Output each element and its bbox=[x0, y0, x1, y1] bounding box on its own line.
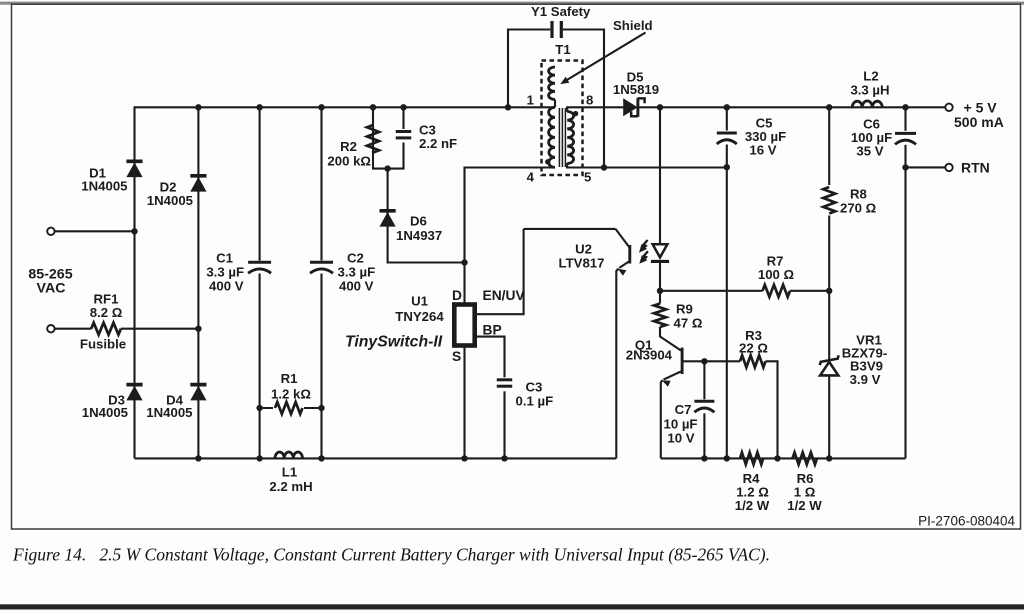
label U2 LTV817 bbox=[559, 242, 605, 271]
label R4 1.2ohm 1/2W bbox=[735, 471, 770, 513]
label D3 1N4005 bbox=[82, 393, 128, 421]
wire RF1 to D2/D4 node bbox=[121, 328, 198, 330]
svg-text:Y1 Safety: Y1 Safety bbox=[531, 4, 591, 19]
resistor R8 bbox=[821, 185, 838, 216]
label R7 100ohm bbox=[758, 254, 795, 283]
svg-text:2N3904: 2N3904 bbox=[626, 348, 673, 363]
label R2 200k bbox=[327, 139, 371, 169]
wire D6 branch bbox=[388, 169, 465, 263]
node: C5 top bbox=[724, 104, 730, 110]
svg-text:L2: L2 bbox=[863, 69, 878, 84]
svg-text:EN/UV: EN/UV bbox=[483, 288, 526, 303]
capacitor C6 bbox=[895, 131, 917, 145]
node: Y1 to secondary return bbox=[601, 164, 607, 170]
node: R1 right bbox=[318, 405, 324, 411]
label C1 3.3uF 400V bbox=[206, 251, 244, 294]
label 85-265 VAC bbox=[28, 267, 72, 297]
diode D2 bbox=[190, 176, 206, 192]
node: D6 to drain bbox=[461, 259, 467, 265]
capacitor C1 bbox=[248, 261, 271, 274]
svg-text:RTN: RTN bbox=[961, 160, 990, 176]
wire pin5 to C5 bbox=[566, 166, 727, 168]
wire R7 to R8 node bbox=[790, 290, 829, 292]
wire EN/UV bbox=[477, 229, 524, 314]
label RTN bbox=[961, 160, 990, 176]
capacitor Y1 safety bbox=[552, 21, 561, 38]
wire BP bbox=[477, 337, 505, 459]
zener VR1 bbox=[820, 355, 839, 375]
label VR1 BZX79-B3V9 3.9V bbox=[842, 333, 887, 388]
label Q1 2N3904 bbox=[626, 338, 673, 363]
svg-text:VAC: VAC bbox=[37, 280, 66, 296]
svg-text:1N4005: 1N4005 bbox=[146, 405, 192, 420]
wire top bus bbox=[198, 106, 555, 108]
resistor R7 bbox=[763, 285, 790, 297]
wire bottom bus (primary) bbox=[135, 457, 617, 459]
svg-text:D6: D6 bbox=[410, 214, 427, 229]
label Shield bbox=[613, 18, 653, 33]
node: C7 bottom bbox=[701, 455, 707, 461]
svg-text:400 V: 400 V bbox=[339, 279, 374, 294]
svg-text:100 Ω: 100 Ω bbox=[758, 267, 795, 282]
wire D1/D3 branch bbox=[135, 107, 199, 458]
AC input terminal (top) bbox=[47, 228, 54, 235]
svg-text:1: 1 bbox=[527, 93, 534, 108]
svg-text:Fusible: Fusible bbox=[80, 337, 126, 352]
wire secondary bottom rail bbox=[661, 457, 906, 459]
svg-text:2.2 nF: 2.2 nF bbox=[419, 136, 457, 151]
label L1 2.2mH bbox=[269, 465, 312, 495]
node: L2 right / C6 top bbox=[902, 104, 908, 110]
label TinySwitch-II bbox=[345, 334, 443, 351]
wire RTN rail bbox=[904, 107, 906, 458]
node: C1 top bbox=[256, 104, 262, 110]
svg-text:1N4005: 1N4005 bbox=[147, 193, 193, 208]
svg-text:TNY264: TNY264 bbox=[395, 309, 444, 324]
wire Y1 branch left bbox=[508, 30, 550, 108]
wire R7 row bbox=[660, 290, 763, 292]
node: R2 top bbox=[370, 104, 376, 110]
wire C3 branch bbox=[388, 107, 404, 168]
svg-text:35 V: 35 V bbox=[856, 144, 883, 159]
transformer T1 dashed box bbox=[542, 61, 583, 176]
wire R1 row bbox=[260, 407, 322, 409]
output terminal +5V bbox=[945, 104, 952, 111]
label U1 TNY264 bbox=[395, 294, 444, 325]
PI code bbox=[918, 514, 1015, 529]
wire pin4 to drain bbox=[465, 168, 556, 263]
label BP bbox=[483, 323, 502, 338]
svg-text:3.3 µF: 3.3 µF bbox=[338, 265, 376, 280]
svg-text:2.2 mH: 2.2 mH bbox=[269, 479, 312, 494]
label +5V 500mA bbox=[954, 100, 1004, 131]
label D6 1N4937 bbox=[396, 214, 442, 244]
label R9 47ohm bbox=[674, 302, 703, 331]
wire input-bottom to RF1 bbox=[55, 328, 91, 330]
wire pin8 to D5 bbox=[566, 106, 623, 108]
svg-text:Figure 14. 2.5 W Constant Vol: Figure 14. 2.5 W Constant Voltage, Const… bbox=[12, 545, 770, 565]
capacitor C3 2.2nF bbox=[395, 129, 412, 143]
svg-text:1N4937: 1N4937 bbox=[396, 228, 442, 243]
node: L2 left / R8 top bbox=[826, 104, 832, 110]
svg-text:22 Ω: 22 Ω bbox=[739, 341, 768, 356]
node: R7 right / R8 bottom bbox=[826, 288, 832, 294]
wire opto emitter to primary bus bbox=[616, 269, 618, 459]
IC U1 TNY264 body bbox=[454, 305, 474, 346]
label D5 1N5819 bbox=[613, 70, 659, 98]
svg-text:R2: R2 bbox=[340, 139, 357, 154]
node: L1 right bbox=[318, 455, 324, 461]
node: D5 cathode bbox=[657, 104, 663, 110]
svg-text:R8: R8 bbox=[850, 187, 867, 202]
wire C2 branch bbox=[320, 107, 322, 458]
svg-text:D: D bbox=[452, 288, 462, 303]
svg-text:T1: T1 bbox=[555, 42, 570, 57]
wire D5 node to LED bbox=[659, 107, 661, 244]
wire Q1 base row bbox=[682, 360, 740, 362]
opto light arrows bbox=[639, 240, 648, 264]
svg-text:1/2 W: 1/2 W bbox=[735, 498, 770, 513]
resistor R6 bbox=[793, 452, 817, 464]
U2 phototransistor bbox=[524, 229, 630, 276]
svg-text:U2: U2 bbox=[575, 242, 592, 257]
shield arrow bbox=[560, 33, 645, 85]
node: VR1 on rail bbox=[826, 455, 832, 461]
resistor RF1 bbox=[91, 323, 121, 335]
wire Y1 branch right bbox=[563, 30, 604, 168]
AC input terminal (bottom) bbox=[47, 325, 54, 332]
label D4 1N4005 bbox=[146, 393, 192, 421]
label R8 270ohm bbox=[840, 187, 877, 216]
label D1 1N4005 bbox=[81, 166, 127, 194]
T1 secondary phase dot bbox=[573, 111, 578, 116]
T1 secondary winding bbox=[567, 107, 573, 167]
wire RTN to terminal bbox=[906, 166, 946, 168]
svg-text:4: 4 bbox=[527, 170, 535, 185]
label pin D bbox=[452, 288, 462, 303]
node: C5 bottom bbox=[724, 164, 730, 170]
T1 primary phase dot bbox=[545, 159, 550, 164]
resistor R9 bbox=[654, 291, 666, 327]
svg-text:5: 5 bbox=[584, 170, 591, 185]
svg-text:BP: BP bbox=[483, 323, 502, 338]
label C2 3.3uF 400V bbox=[338, 251, 376, 294]
wire C5 return riser bbox=[726, 167, 728, 458]
svg-text:1N4005: 1N4005 bbox=[82, 405, 128, 420]
label D2 1N4005 bbox=[147, 180, 193, 209]
output terminal RTN bbox=[945, 164, 952, 171]
svg-text:8.2 Ω: 8.2 Ω bbox=[90, 305, 123, 320]
resistor R3 bbox=[740, 355, 765, 367]
svg-text:S: S bbox=[452, 349, 461, 364]
node: D4 bottom bus bbox=[195, 455, 201, 461]
node: D2 top bus bbox=[195, 104, 201, 110]
svg-text:10 µF: 10 µF bbox=[664, 417, 698, 432]
node: source on bus bbox=[461, 455, 467, 461]
svg-text:U1: U1 bbox=[411, 294, 428, 309]
page top rule bbox=[0, 2, 1024, 5]
label RF1 8.2 ohm Fusible bbox=[80, 292, 126, 352]
resistor R1 bbox=[273, 400, 304, 416]
T1 core bbox=[559, 108, 565, 167]
node: C7 top bbox=[701, 358, 707, 364]
svg-text:47 Ω: 47 Ω bbox=[674, 316, 703, 331]
label pin 1 bbox=[527, 93, 534, 108]
label C3 0.1uF bbox=[516, 380, 554, 409]
T1 primary winding bbox=[549, 67, 555, 167]
wire R3 to R4/R6 junction bbox=[766, 361, 778, 458]
svg-text:LTV817: LTV817 bbox=[559, 256, 605, 271]
inductor L2 bbox=[852, 101, 882, 107]
svg-text:400 V: 400 V bbox=[209, 279, 244, 294]
svg-text:3.3 µH: 3.3 µH bbox=[850, 83, 889, 98]
node: R4/R6 junction bbox=[774, 455, 780, 461]
figure caption bbox=[12, 545, 770, 565]
label pin 8 bbox=[586, 93, 593, 108]
svg-text:C1: C1 bbox=[216, 251, 233, 266]
svg-text:10 V: 10 V bbox=[667, 431, 694, 446]
svg-text:3.3 µF: 3.3 µF bbox=[206, 265, 244, 280]
diode D6 bbox=[380, 211, 396, 227]
label pin 5 bbox=[584, 170, 591, 185]
inductor L1 bbox=[275, 452, 303, 458]
label T1 bbox=[555, 42, 570, 57]
label R3 22ohm bbox=[739, 328, 768, 356]
svg-text:C7: C7 bbox=[675, 402, 692, 417]
wire LED to R9 node bbox=[659, 261, 661, 290]
node: clamp junction bbox=[384, 165, 390, 171]
wire Q1 emitter to rail bbox=[661, 380, 663, 458]
diode D4 bbox=[190, 385, 206, 401]
node: LED cathode / R7 left bbox=[657, 288, 663, 294]
svg-text:R9: R9 bbox=[676, 302, 693, 317]
label C5 330uF 16V bbox=[745, 116, 786, 158]
wire drain riser bbox=[463, 263, 465, 303]
node: top input junction bbox=[131, 228, 137, 234]
LED of U2 (opto) bbox=[651, 244, 669, 261]
label C6 100uF 35V bbox=[851, 117, 892, 159]
svg-text:1N5819: 1N5819 bbox=[613, 82, 659, 97]
label L2 3.3uH bbox=[850, 69, 889, 98]
svg-text:L1: L1 bbox=[282, 465, 297, 480]
label C3 2.2nF bbox=[419, 123, 457, 152]
capacitor C7 bbox=[694, 361, 715, 458]
node: C5 riser on rail bbox=[724, 455, 730, 461]
label Y1 Safety bbox=[531, 4, 591, 19]
label pin S bbox=[452, 349, 461, 364]
wire input-top to D1 node bbox=[55, 230, 135, 232]
node: C2 top bbox=[318, 104, 324, 110]
node: bottom input junction bbox=[195, 326, 201, 332]
label R1 1.2k bbox=[271, 371, 311, 402]
svg-text:270 Ω: 270 Ω bbox=[840, 201, 877, 216]
wire R2 branch bbox=[373, 107, 388, 168]
resistor R4 bbox=[740, 452, 763, 464]
svg-text:8: 8 bbox=[586, 93, 593, 108]
wire D2/D4 branch bbox=[197, 107, 199, 458]
svg-text:3.9 V: 3.9 V bbox=[850, 372, 881, 387]
diode D5 schottky bbox=[623, 98, 644, 117]
svg-text:0.1 µF: 0.1 µF bbox=[516, 394, 554, 409]
wire source to bus bbox=[463, 347, 465, 458]
wire R8 branch bbox=[828, 107, 830, 458]
node: RTN junction bbox=[902, 164, 908, 170]
node: R1 left bbox=[256, 405, 262, 411]
svg-text:PI-2706-080404: PI-2706-080404 bbox=[918, 514, 1015, 529]
svg-text:16 V: 16 V bbox=[749, 143, 776, 158]
svg-text:500 mA: 500 mA bbox=[954, 114, 1004, 130]
diode D1 bbox=[126, 161, 142, 177]
svg-text:200 kΩ: 200 kΩ bbox=[327, 154, 371, 169]
label C7 10uF 10V bbox=[664, 402, 698, 446]
svg-text:R1: R1 bbox=[281, 371, 298, 386]
diode D3 bbox=[126, 385, 142, 401]
node: C3 top bbox=[400, 104, 406, 110]
node: L1 left bbox=[256, 455, 262, 461]
svg-text:Shield: Shield bbox=[613, 18, 653, 33]
capacitor C5 bbox=[716, 107, 737, 167]
label R6 1ohm 1/2W bbox=[787, 471, 822, 513]
label pin 4 bbox=[527, 170, 535, 185]
wire D5 to output terminal bbox=[638, 106, 946, 108]
svg-text:TinySwitch-II: TinySwitch-II bbox=[345, 334, 443, 351]
svg-text:C3: C3 bbox=[526, 380, 543, 395]
label EN/UV bbox=[483, 288, 526, 303]
transistor Q1 2N3904 bbox=[660, 327, 682, 387]
node: BP on bus bbox=[501, 455, 507, 461]
svg-text:C2: C2 bbox=[347, 251, 364, 266]
capacitor C3 0.1uF (BP) bbox=[496, 377, 513, 391]
svg-text:1/2 W: 1/2 W bbox=[787, 498, 822, 513]
svg-text:1N4005: 1N4005 bbox=[81, 179, 127, 194]
svg-text:1.2 kΩ: 1.2 kΩ bbox=[271, 387, 311, 402]
capacitor C2 bbox=[310, 261, 333, 274]
wire C1 branch bbox=[259, 107, 261, 458]
page bottom rule bbox=[0, 604, 1024, 609]
node: Y1 tap bbox=[505, 104, 511, 110]
resistor R2 bbox=[367, 125, 379, 153]
